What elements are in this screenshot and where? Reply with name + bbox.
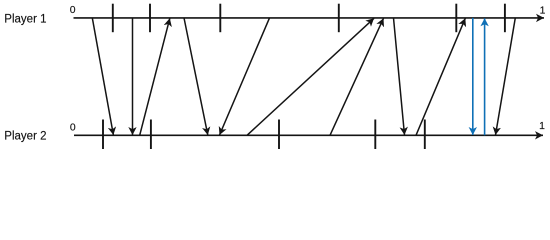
tick top 4 [338, 4, 340, 33]
arrow 9 P2->P1 [416, 18, 465, 135]
arrow 10 P1->P2 [496, 18, 516, 135]
arrow blue down P1->P2 [472, 18, 474, 135]
axis Player 1 timeline [74, 17, 545, 19]
svg-text:1: 1 [539, 121, 545, 132]
arrow 2 P1->P2 vertical [132, 18, 134, 135]
tick top 5 [455, 4, 457, 33]
svg-text:0: 0 [70, 123, 76, 134]
tick top 1 [112, 4, 114, 33]
svg-text:1: 1 [540, 6, 546, 17]
tick top 2 [149, 4, 151, 33]
tick bottom 1 [102, 120, 104, 150]
tick bottom 5 [424, 120, 426, 150]
arrow 6 P2->P1 long diagonal [247, 18, 374, 135]
arrow 5 P1->P2 [220, 18, 270, 135]
arrow 1 P1->P2 [92, 18, 113, 135]
tick bottom 4 [374, 120, 376, 150]
svg-text:0: 0 [70, 5, 76, 16]
svg-text:Player 1: Player 1 [4, 14, 46, 26]
arrow 4 P1->P2 [184, 18, 208, 135]
tick bottom 2 [150, 120, 152, 150]
axis Player 2 timeline [74, 134, 543, 136]
svg-text:Player 2: Player 2 [4, 131, 46, 143]
arrow 3 P2->P1 [140, 18, 170, 135]
tick top 6 [504, 4, 506, 33]
arrow blue up P2->P1 [484, 18, 486, 135]
tick bottom 3 [278, 120, 280, 150]
tick top 3 [219, 4, 221, 33]
arrow 8 P1->P2 [394, 18, 405, 135]
arrow 7 P2->P1 [330, 18, 384, 135]
